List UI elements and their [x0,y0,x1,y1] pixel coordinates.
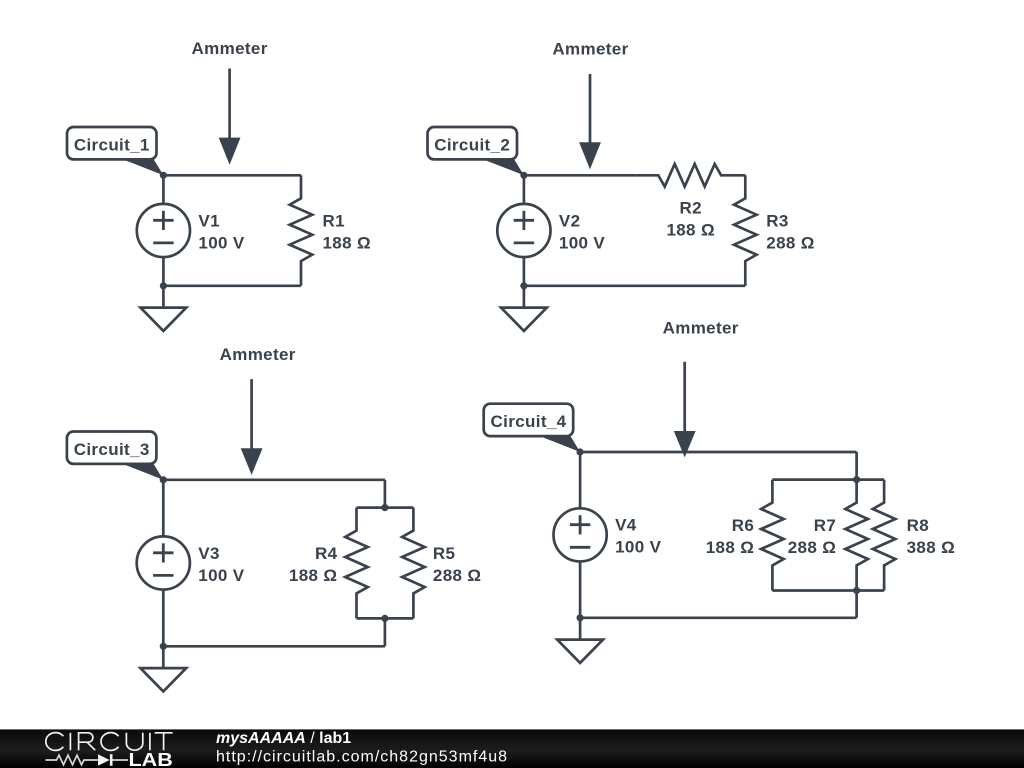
svg-text:R8: R8 [907,516,929,535]
svg-text:V1: V1 [198,211,220,230]
svg-text:288 Ω: 288 Ω [788,538,836,557]
svg-text:Ammeter: Ammeter [552,39,628,58]
svg-text:V2: V2 [559,211,581,230]
svg-text:Circuit_3: Circuit_3 [74,440,150,459]
svg-text:188 Ω: 188 Ω [666,221,714,240]
svg-text:Circuit_4: Circuit_4 [491,412,567,431]
svg-text:288 Ω: 288 Ω [433,566,481,585]
svg-text:Ammeter: Ammeter [220,345,296,364]
svg-text:188 Ω: 188 Ω [323,233,371,252]
svg-text:LAB: LAB [129,750,173,768]
svg-text:http://circuitlab.com/ch82gn53: http://circuitlab.com/ch82gn53mf4u8 [216,749,508,766]
svg-text:R6: R6 [732,516,754,535]
svg-text:R3: R3 [766,211,788,230]
svg-text:R1: R1 [323,211,345,230]
svg-text:Circuit_1: Circuit_1 [74,135,150,154]
svg-text:R7: R7 [814,516,836,535]
svg-text:188 Ω: 188 Ω [706,538,754,557]
svg-text:R2: R2 [679,199,701,218]
svg-text:100 V: 100 V [198,233,244,252]
svg-text:288 Ω: 288 Ω [766,233,814,252]
svg-text:100 V: 100 V [559,233,605,252]
svg-text:mysAAAAA / lab1: mysAAAAA / lab1 [216,730,351,747]
svg-text:388 Ω: 388 Ω [907,538,955,557]
svg-text:100 V: 100 V [198,566,244,585]
svg-text:Circuit_2: Circuit_2 [434,135,510,154]
svg-text:R5: R5 [433,544,455,563]
svg-text:100 V: 100 V [615,538,661,557]
svg-text:Ammeter: Ammeter [192,39,268,58]
svg-text:Ammeter: Ammeter [663,318,739,337]
svg-text:R4: R4 [315,544,338,563]
svg-text:V4: V4 [615,516,637,535]
svg-text:V3: V3 [198,544,220,563]
svg-text:188 Ω: 188 Ω [289,566,337,585]
